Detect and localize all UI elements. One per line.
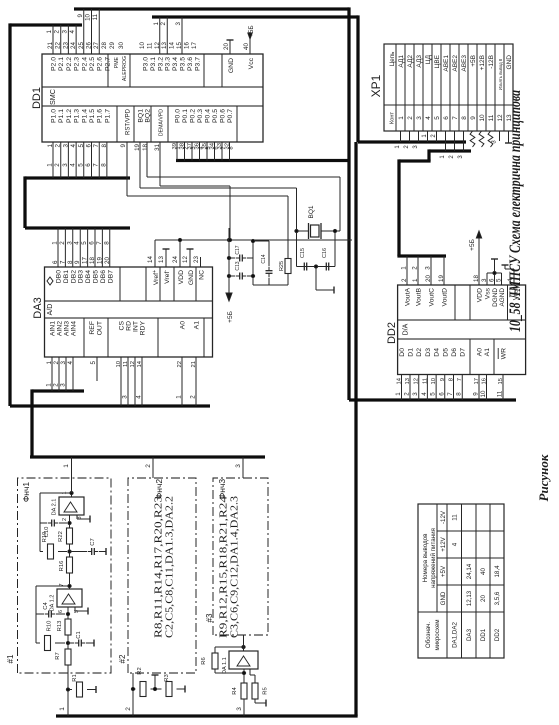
bus: P1-DB data bracket (D) (25, 176, 130, 228)
svg-text:2: 2 (53, 383, 60, 387)
svg-text:Изъять вывод 8: Изъять вывод 8 (498, 58, 503, 90)
caption: title (507, 90, 524, 332)
XP1 contact 1-3 wires to bus B labels 1-3 (395, 131, 419, 149)
svg-text:R10: R10 (47, 621, 53, 632)
bus: long mid horizontal to filters (C) (56, 142, 358, 716)
svg-text:R7: R7 (55, 652, 61, 659)
svg-text:Цепь: Цепь (389, 52, 396, 67)
svg-text:GND: GND (228, 58, 235, 73)
svg-text:Vref-: Vref- (163, 270, 171, 284)
svg-text:1: 1 (395, 392, 402, 396)
svg-text:P1.4: P1.4 (81, 109, 88, 123)
resistor R2 (terminator) (131, 667, 161, 696)
filter box Fnch2 (128, 478, 196, 673)
DD2 ground join for Vss/DGND/AGND (487, 259, 502, 275)
svg-text:P3.2: P3.2 (157, 57, 164, 71)
DD1 pin DEMA/VPD (31) (154, 109, 165, 151)
svg-text:PME: PME (114, 56, 120, 68)
svg-text:6: 6 (443, 116, 450, 120)
DD1 pin P1.5 (6) (86, 109, 97, 148)
svg-text:-12V: -12V (440, 510, 447, 524)
DA3 pin DB0 (6) wire to bracket with label 1 (52, 228, 63, 283)
svg-text:P1.1: P1.1 (58, 109, 65, 123)
DA3 left cell dividers (84, 318, 204, 357)
svg-text:2: 2 (404, 145, 410, 149)
svg-text:D2: D2 (416, 348, 423, 357)
svg-text:Номера выводов: Номера выводов (422, 533, 429, 583)
DD1 pin RST/VPD (9) (120, 108, 132, 147)
svg-text:18,4: 18,4 (494, 565, 501, 578)
svg-text:R16: R16 (59, 561, 65, 572)
DD2 pin D4 (10) wire label 5 (430, 348, 441, 400)
svg-text:#3: #3 (205, 613, 214, 622)
svg-text:R25: R25 (279, 261, 285, 271)
svg-text:VDD: VDD (178, 270, 185, 284)
+5B arrow near DA3 (226, 228, 234, 323)
DD2 pin VoutC (20) (425, 256, 436, 307)
DA3 pin DB4 (17) wire to bracket with label 5 (81, 228, 92, 283)
DD2 pin D0 (14) wire label 1 (395, 348, 406, 400)
DA3 pin GND (12) grounded (182, 249, 195, 285)
capacitor C13 (229, 255, 253, 271)
svg-text:DA1,DA2: DA1,DA2 (451, 622, 458, 648)
svg-text:RST/VPD: RST/VPD (126, 108, 132, 135)
svg-text:A0: A0 (180, 321, 187, 330)
svg-text:2: 2 (125, 707, 132, 711)
DA3 pin AIN1 (1) (46, 321, 57, 391)
svg-text:2: 2 (431, 134, 437, 138)
svg-text:C16: C16 (322, 248, 328, 258)
svg-text:12: 12 (182, 256, 189, 263)
svg-text:P1.6: P1.6 (97, 109, 104, 123)
DD1 pin GND (20) with ground symbol (223, 40, 235, 73)
svg-text:1: 1 (153, 21, 160, 25)
svg-text:20: 20 (480, 595, 487, 602)
svg-text:A1: A1 (484, 348, 491, 357)
svg-text:ЦВЕ: ЦВЕ (434, 54, 441, 68)
svg-text:C2,C5,C8,C11,DA1.3,DA2.2: C2,C5,C8,C11,DA1.3,DA2.2 (164, 496, 176, 638)
wire DD1 BQ2 pin18 to crystal (147, 142, 340, 267)
svg-text:DA 1.1: DA 1.1 (222, 657, 228, 674)
svg-text:XP1: XP1 (369, 74, 383, 97)
resistor R4 (232, 669, 247, 699)
filter box Fnch1 (18, 478, 112, 673)
wires DD1 P1.0-7 to bracket rail with labels 1-8 (47, 142, 108, 178)
resistor R13 (57, 619, 71, 635)
svg-text:24,14: 24,14 (466, 563, 473, 579)
svg-text:1: 1 (440, 155, 446, 159)
XP1 contact 13 GND symbol (505, 131, 512, 143)
label #3 (205, 613, 214, 622)
svg-text:DA 2.1: DA 2.1 (52, 499, 58, 516)
DD2 pin VDD (18) to +5B (469, 231, 484, 302)
capacitor C1 (to ground) (68, 631, 94, 646)
svg-text:40: 40 (480, 568, 487, 575)
svg-text:1: 1 (47, 163, 54, 167)
DD1 pin Vcc (40) to +5B arrow (243, 25, 255, 69)
svg-text:3: 3 (236, 707, 243, 711)
svg-text:VoutD: VoutD (442, 288, 449, 307)
svg-text:11: 11 (488, 114, 495, 121)
DD1 pin P2.3 (24) (70, 42, 81, 71)
DA3 pin AIN3 (3) (60, 321, 71, 391)
svg-text:напряжений питания: напряжений питания (430, 528, 437, 588)
svg-text:REF: REF (89, 321, 96, 335)
DD1 pin P2.6 (27) (93, 42, 104, 71)
svg-text:3: 3 (191, 146, 197, 149)
svg-text:DA3: DA3 (32, 297, 44, 318)
DD2 pin D3 (11) wire label 4 (421, 348, 432, 400)
svg-text:AGND: AGND (499, 288, 506, 307)
wire +5B rail for DA3 Vref/VDD (155, 238, 352, 241)
svg-text:2: 2 (145, 464, 152, 468)
svg-text:D4: D4 (434, 348, 441, 357)
DD2 pin A0 (17) wire label 9 (473, 348, 484, 400)
svg-text:BQ1: BQ1 (138, 109, 145, 123)
svg-text:P1.7: P1.7 (104, 109, 111, 123)
DD2 pin Vref (4) (502, 265, 520, 300)
DD1 pin P3.0 (10) (139, 42, 150, 71)
DD1 pin P0.5 (34) (210, 109, 220, 150)
svg-text:BQ1: BQ1 (308, 205, 315, 218)
svg-text:4: 4 (70, 163, 77, 167)
DD1 pin P3.7 (17) (191, 42, 202, 71)
svg-text:3: 3 (416, 116, 423, 120)
svg-text:AIN3: AIN3 (64, 321, 71, 336)
DA3 pin DB5 (18) wire to bracket with label 6 (89, 228, 100, 283)
DA2.1 noninv ground (77, 515, 90, 523)
svg-text:28: 28 (101, 42, 108, 49)
IC DD1 (SMC microcontroller) (31, 54, 263, 142)
svg-text:Vcc: Vcc (248, 57, 255, 69)
DA3 pin REF OUT (5) (89, 321, 104, 381)
DA3 pin A1 (21) wire label 2 (190, 321, 201, 406)
svg-text:GND: GND (506, 55, 513, 70)
svg-text:6: 6 (214, 146, 220, 149)
resistor R19 (feedback) (40, 532, 67, 559)
DD1 pin P2.5 (26) (86, 42, 97, 71)
resistor R25 (279, 196, 291, 285)
svg-text:P3.6: P3.6 (187, 57, 194, 71)
svg-text:D6: D6 (451, 348, 458, 357)
DD1 pin P2.2 (23) (62, 42, 73, 71)
svg-text:R6: R6 (201, 657, 207, 664)
svg-text:Обознач.: Обознач. (425, 622, 432, 649)
svg-text:7: 7 (221, 146, 227, 149)
svg-text:2: 2 (449, 155, 455, 159)
DD2 pin WR (15) wire label 11 (497, 348, 508, 400)
DA3 DB0 diamond symbol (47, 277, 53, 285)
svg-text:3: 3 (235, 464, 242, 468)
ground for crystal caps (314, 265, 334, 294)
DA2.1 pins 2,3,1 (62, 491, 83, 521)
DD2 pin D2 (12) wire label 3 (412, 348, 423, 400)
DA3 pin DB6 (19) wire to bracket with label 7 (96, 228, 107, 283)
svg-text:8: 8 (456, 392, 463, 396)
wire filter1 output to rail G label 1 (63, 457, 72, 493)
XP1 contact 4,5 wires labels 1,2 (422, 131, 437, 142)
svg-text:D3: D3 (425, 348, 432, 357)
DA3 pin Vref+ (14) (147, 240, 160, 285)
svg-text:12,13: 12,13 (466, 590, 473, 606)
DD2 pin A1 (16) wire label 10 (480, 348, 491, 400)
svg-text:P0.6: P0.6 (220, 109, 227, 123)
svg-text:P2.2: P2.2 (66, 57, 73, 71)
svg-text:R3: R3 (164, 674, 170, 681)
svg-text:R1: R1 (72, 674, 78, 681)
DD1 pin P1.3 (4) (70, 109, 81, 148)
svg-text:GND: GND (440, 591, 447, 605)
DA3 pin DB1 (7) wire to bracket with label 2 (59, 228, 70, 283)
DD1 pin P0.7 (32) (225, 109, 235, 150)
DD1 pin P0.6 (33) (217, 109, 227, 150)
capacitor C16 (322, 248, 333, 271)
DD2 pin VoutA (2) (401, 256, 412, 306)
svg-text:VoutC: VoutC (429, 288, 436, 307)
DD1 pin P3.5 (15) (176, 42, 187, 71)
resistor R22 (58, 528, 73, 544)
svg-text:8: 8 (103, 241, 110, 245)
DD1 pin BQ1 (19) (134, 109, 145, 151)
capacitor C17 (229, 245, 255, 279)
wire DA2.1 feedback (40, 491, 73, 551)
svg-text:АД1: АД1 (398, 55, 405, 68)
svg-text:P0.3: P0.3 (197, 109, 204, 123)
svg-text:+5V: +5V (440, 565, 447, 577)
DD2 left cell dividers (470, 339, 494, 375)
svg-text:+5В: +5В (470, 55, 477, 67)
svg-text:4: 4 (425, 116, 432, 120)
svg-text:DB1: DB1 (63, 270, 70, 283)
DD1 pin P3.2 (12) (154, 42, 165, 71)
svg-text:11: 11 (451, 514, 458, 521)
svg-text:1: 1 (176, 395, 183, 399)
svg-text:D0: D0 (399, 348, 406, 357)
caption: Risunok (536, 454, 551, 501)
capacitor C14 (261, 241, 273, 285)
svg-text:P2.0: P2.0 (51, 57, 58, 71)
svg-text:RD: RD (126, 321, 133, 331)
wire node D to opamp2 (68, 515, 71, 528)
wire filter1 input from bus (59, 665, 68, 716)
svg-text:10: 10 (139, 42, 146, 49)
filter2 output wire to rail G label 2 (145, 457, 153, 478)
DD2 pin VoutD (19) (438, 256, 449, 307)
svg-text:AIN4: AIN4 (71, 321, 78, 336)
DA3 pin NC (23) (193, 256, 206, 280)
svg-text:-12В: -12В (488, 55, 495, 69)
DD2 pin D6 (8) wire label 7 (447, 348, 458, 400)
bus: P2.0-3 control to DA3 (E) (10, 23, 210, 406)
svg-text:2: 2 (412, 266, 419, 270)
svg-text:1: 1 (176, 146, 182, 149)
resistor R1 (input terminator) (66, 674, 96, 697)
svg-text:INT: INT (133, 321, 140, 332)
svg-text:DA3: DA3 (466, 628, 473, 641)
svg-text:P0.0: P0.0 (175, 109, 182, 123)
svg-text:R4: R4 (232, 687, 238, 695)
svg-text:3,5,6: 3,5,6 (494, 591, 501, 605)
DD1 pin P2.4 (25) (78, 42, 89, 71)
svg-text:DD2: DD2 (494, 628, 501, 641)
svg-text:R22: R22 (58, 531, 64, 542)
svg-text:4: 4 (69, 29, 76, 33)
svg-text:1: 1 (398, 116, 405, 120)
svg-text:3: 3 (458, 155, 464, 159)
svg-text:5: 5 (77, 163, 84, 167)
svg-text:P1.2: P1.2 (66, 109, 73, 123)
svg-text:24: 24 (172, 256, 179, 263)
DA1.2 pins 6,5,7 (58, 583, 80, 613)
DA1.2 noninv input ground (75, 607, 88, 615)
resistor R7 (55, 649, 71, 665)
svg-text:АВЕ2: АВЕ2 (452, 55, 459, 72)
svg-text:20: 20 (223, 43, 230, 50)
svg-text:+12В: +12В (479, 55, 486, 70)
svg-text:7: 7 (447, 392, 454, 396)
DA3 pin DB3 (9) wire to bracket with label 4 (74, 228, 85, 283)
DA3 pin INT (12) (130, 321, 140, 406)
svg-text:40: 40 (243, 43, 250, 50)
svg-text:1: 1 (46, 383, 53, 387)
op-amp DA1.1 (222, 651, 258, 674)
wire filter3 input label 3 (236, 699, 244, 716)
wire filter2 input label 2 (125, 673, 133, 716)
wire DA1.2 feedback line (36, 581, 71, 643)
svg-text:D7: D7 (460, 348, 467, 357)
svg-text:14: 14 (147, 256, 154, 263)
svg-text:9: 9 (470, 116, 477, 120)
wires DD1 P2.0-P2.3 to bus E with labels 1-4 (46, 25, 76, 54)
DD1 pin P3.3 (13) (161, 42, 172, 71)
DD1 pin P0.2 (37) (187, 109, 197, 150)
svg-text:A1: A1 (194, 321, 201, 330)
svg-text:Vss: Vss (485, 287, 492, 299)
svg-text:12: 12 (497, 114, 504, 122)
svg-text:R5: R5 (263, 687, 269, 694)
wire node A (66, 635, 69, 649)
resistor R16 (59, 557, 73, 573)
bus: DD1 P3 to XP1 (B) (152, 15, 466, 142)
resistor R5 (250, 669, 269, 707)
svg-text:микросхем: микросхем (434, 619, 441, 650)
svg-text:1: 1 (59, 707, 66, 711)
svg-text:ЦД: ЦД (425, 54, 432, 64)
svg-text:A0: A0 (477, 348, 484, 357)
wires DD1 P3.2,P3.3,P3.5 to bus B with labels 1-3 (153, 17, 182, 54)
DD1 pin PME (29) (109, 42, 120, 69)
svg-text:A/D: A/D (47, 304, 54, 316)
svg-text:23: 23 (193, 256, 200, 263)
svg-text:DA 1.2: DA 1.2 (50, 595, 56, 612)
svg-text:DB7: DB7 (107, 270, 114, 283)
DA3 pin AIN2 (2) (53, 321, 64, 391)
DD1 pin P1.6 (7) (93, 109, 104, 148)
DD2 pin D5 (9) wire label 6 (438, 348, 449, 400)
DD2 right cell dividers (455, 285, 508, 320)
svg-text:DB2: DB2 (70, 270, 77, 283)
bus: DD1 P2.4-6 to DD2 (A) (74, 7, 516, 400)
resistor R10 (feedback) (36, 621, 65, 651)
op-amp DA2.1 (52, 497, 85, 515)
svg-text:11: 11 (146, 42, 153, 49)
svg-text:2: 2 (190, 395, 197, 399)
DD1 right column cell dividers (108, 54, 222, 87)
svg-text:7: 7 (93, 163, 100, 167)
DA3 pin A0 (22) wire label 1 (176, 321, 187, 406)
XP1 contact 6-8 wires to ABE bus labels 1-3 (440, 131, 464, 159)
svg-text:#2: #2 (118, 654, 127, 663)
svg-text:P0.7: P0.7 (227, 109, 234, 123)
svg-text:AIN1: AIN1 (50, 321, 57, 336)
DD1 pin P1.0 (1) (47, 109, 58, 148)
svg-text:DGND: DGND (492, 288, 499, 307)
connector XP1 table (369, 44, 513, 131)
svg-text:P3.7: P3.7 (194, 57, 201, 71)
svg-text:1: 1 (401, 266, 408, 270)
capacitor C10 (feedback) (40, 520, 67, 538)
svg-text:17: 17 (191, 42, 198, 49)
svg-text:BQ2: BQ2 (145, 109, 152, 123)
Fnch3 contents text (218, 495, 241, 638)
svg-text:8: 8 (100, 163, 107, 167)
svg-text:7: 7 (96, 241, 103, 245)
svg-text:3: 3 (491, 140, 497, 144)
wire node C (68, 544, 71, 557)
DA3 pin Vref- (13) grounded (158, 249, 171, 284)
DD1 pin P2.7 (28) (101, 42, 112, 71)
svg-text:P3.1: P3.1 (150, 57, 157, 71)
svg-text:C17: C17 (235, 245, 241, 254)
svg-text:Vref+: Vref+ (152, 270, 160, 285)
svg-text:P0.5: P0.5 (212, 109, 219, 123)
svg-text:DB3: DB3 (78, 270, 85, 283)
DD1 pin P0.3 (36) (195, 109, 205, 150)
DA3 pin RDY (14) (136, 321, 147, 406)
bus: filter outputs rail (G) (30, 455, 265, 458)
resistor R3 (terminator) (164, 674, 185, 696)
svg-text:R13: R13 (57, 621, 63, 632)
svg-text:10_58 ЛМПСУ Схема електрична п: 10_58 ЛМПСУ Схема електрична принципова (507, 90, 524, 332)
DD1 pin P1.4 (5) (78, 109, 89, 148)
svg-text:29: 29 (109, 42, 116, 49)
svg-text:#1: #1 (6, 654, 15, 663)
svg-text:P1.5: P1.5 (89, 109, 96, 123)
svg-text:P3.4: P3.4 (172, 57, 179, 71)
svg-text:2: 2 (404, 392, 411, 396)
svg-text:C7: C7 (90, 538, 96, 545)
svg-text:C10: C10 (44, 527, 50, 538)
bus: DD1 P0 vertical rail (176, 159, 349, 162)
svg-text:DD1: DD1 (480, 628, 487, 641)
svg-text:DB4: DB4 (85, 270, 92, 283)
DD2 pin DGND (6) (489, 273, 500, 307)
svg-text:9: 9 (77, 13, 84, 17)
svg-text:1: 1 (52, 241, 59, 245)
svg-text:P2.7: P2.7 (104, 57, 111, 71)
svg-text:SMC: SMC (48, 89, 57, 105)
svg-text:3: 3 (175, 21, 182, 25)
svg-text:P2.1: P2.1 (58, 57, 65, 71)
DA3 pin AIN4 (4) (67, 321, 78, 391)
DD2 pin VoutB (1) (412, 256, 423, 306)
DD1 pin P1.7 (8) (101, 109, 112, 148)
svg-text:CS: CS (119, 321, 126, 331)
svg-text:WR: WR (501, 348, 508, 359)
svg-text:АВЕ1: АВЕ1 (443, 55, 450, 72)
crystal BQ1 (308, 205, 321, 239)
svg-text:C15: C15 (300, 248, 306, 258)
